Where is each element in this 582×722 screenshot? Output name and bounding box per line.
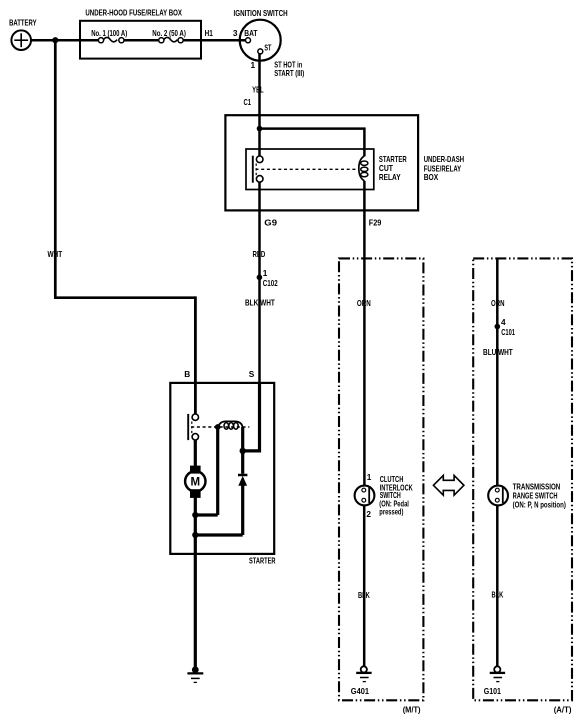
svg-text:START (III): START (III) — [274, 68, 304, 78]
svg-text:1: 1 — [263, 268, 268, 278]
svg-text:UNDER-HOOD FUSE/RELAY BOX: UNDER-HOOD FUSE/RELAY BOX — [85, 8, 182, 18]
svg-text:(M/T): (M/T) — [403, 705, 421, 715]
svg-text:pressed): pressed) — [379, 506, 403, 516]
svg-text:(A/T): (A/T) — [554, 705, 572, 715]
svg-text:(ON: P, N position): (ON: P, N position) — [513, 500, 566, 510]
svg-text:G101: G101 — [484, 686, 502, 696]
svg-text:ST: ST — [264, 43, 271, 53]
svg-text:RED: RED — [252, 249, 265, 259]
svg-text:C101: C101 — [501, 327, 515, 337]
svg-text:1: 1 — [367, 472, 372, 482]
svg-text:G401: G401 — [351, 686, 370, 696]
svg-text:2: 2 — [366, 509, 371, 519]
svg-text:RELAY: RELAY — [379, 172, 401, 182]
svg-text:BLK: BLK — [358, 590, 370, 600]
svg-text:F29: F29 — [369, 217, 382, 227]
svg-text:C102: C102 — [263, 278, 278, 288]
svg-text:B: B — [184, 369, 190, 379]
svg-text:ORN: ORN — [357, 298, 371, 308]
svg-text:M: M — [191, 476, 201, 488]
svg-text:No. 2 (50 A): No. 2 (50 A) — [152, 28, 186, 38]
svg-text:H1: H1 — [205, 28, 213, 38]
svg-text:1: 1 — [251, 60, 256, 70]
svg-text:BLU/WHT: BLU/WHT — [483, 347, 513, 357]
svg-text:BLK/WHT: BLK/WHT — [245, 297, 275, 307]
svg-text:YEL: YEL — [252, 85, 264, 95]
svg-text:S: S — [249, 369, 255, 379]
svg-text:BATTERY: BATTERY — [9, 17, 37, 27]
svg-text:C1: C1 — [244, 97, 252, 107]
svg-text:4: 4 — [501, 317, 506, 327]
svg-text:IGNITION SWITCH: IGNITION SWITCH — [234, 8, 288, 18]
svg-text:ORN: ORN — [491, 298, 505, 308]
svg-text:BLK: BLK — [491, 589, 503, 599]
svg-text:STARTER: STARTER — [249, 555, 276, 565]
svg-text:UNDER-DASH: UNDER-DASH — [424, 154, 464, 164]
svg-text:BAT: BAT — [244, 28, 257, 38]
svg-text:BOX: BOX — [424, 172, 439, 182]
svg-text:WHT: WHT — [47, 249, 62, 259]
svg-text:3: 3 — [233, 28, 238, 38]
svg-text:G9: G9 — [264, 217, 277, 227]
svg-text:No. 1 (100 A): No. 1 (100 A) — [91, 28, 127, 38]
